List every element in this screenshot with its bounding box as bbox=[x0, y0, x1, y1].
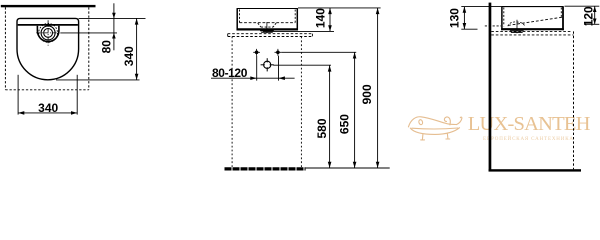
dashed outline shelf right edge bbox=[88, 7, 90, 90]
fixing hole right bbox=[275, 49, 282, 56]
basin side top edge bbox=[501, 6, 563, 8]
drain centerline front bbox=[266, 22, 268, 33]
dimension 140 line bbox=[328, 8, 332, 32]
floor line (side view) bbox=[489, 169, 581, 171]
bathtub icon outline bbox=[408, 117, 462, 140]
counter dashed band front bbox=[228, 34, 313, 37]
svg-text:ЕВРОПЕЙСКАЯ САНТЕХНИКА: ЕВРОПЕЙСКАЯ САНТЕХНИКА bbox=[483, 136, 574, 142]
svg-text:130: 130 bbox=[448, 8, 462, 28]
faucet centerline vertical bbox=[47, 20, 49, 45]
inner wall dashed right bbox=[294, 10, 296, 23]
basin outline (top view) bbox=[17, 18, 79, 79]
svg-text:580: 580 bbox=[315, 118, 329, 138]
witness line 80-120 left bbox=[256, 56, 258, 81]
basin front top edge bbox=[237, 8, 298, 10]
interior slope dashed (side) bbox=[508, 17, 562, 25]
pedestal dashed right edge (side) bbox=[573, 31, 575, 169]
drain fitting front bbox=[260, 31, 274, 33]
extension line 130 bottom bbox=[461, 28, 477, 30]
dimension 900 label bbox=[360, 84, 374, 104]
dimension 80-120 line bbox=[211, 76, 295, 80]
dimension 900 line bbox=[376, 8, 380, 168]
drain fitting (side) bbox=[510, 30, 524, 33]
interior dashed stub through wall bbox=[485, 25, 501, 27]
counter dashed top (side) bbox=[491, 30, 572, 32]
basin front left edge bbox=[236, 9, 238, 31]
dashed outline shelf left edge bbox=[4, 7, 6, 90]
faucet hole dashed circle bbox=[39, 24, 58, 43]
dimension 340 bottom label bbox=[38, 101, 58, 115]
extension line basin top (side) bbox=[461, 6, 501, 8]
inner floor dashed bbox=[240, 22, 296, 24]
dimension 580 label bbox=[315, 118, 329, 138]
floor extension line bbox=[306, 167, 390, 169]
extension line basin top edge bbox=[79, 17, 146, 19]
extension line 120 bottom bbox=[584, 23, 599, 25]
drain recess dashed bbox=[258, 23, 277, 27]
dimension 120 line bbox=[593, 6, 597, 24]
faucet hole inner circle bbox=[44, 29, 53, 38]
dimension 80 label bbox=[100, 40, 114, 54]
dimension 130 label bbox=[448, 8, 462, 28]
dimension 130 line bbox=[463, 7, 467, 30]
pedestal dashed right edge bbox=[300, 37, 302, 168]
dimension 140 label bbox=[314, 8, 328, 28]
dashed outline shelf front edge bbox=[5, 89, 88, 91]
extension line basin bottom edge bbox=[56, 79, 140, 81]
floor thick dashed bbox=[225, 167, 306, 170]
inner wall dashed right (side) bbox=[560, 8, 562, 18]
drain crosshair front bbox=[261, 58, 274, 71]
svg-text:900: 900 bbox=[360, 84, 374, 104]
svg-text:650: 650 bbox=[337, 114, 351, 134]
dimension 650 label bbox=[337, 114, 351, 134]
wall line (top view) bbox=[1, 5, 96, 7]
watermark logo group bbox=[408, 113, 590, 142]
faucet pocket bbox=[37, 26, 59, 42]
fixing hole left bbox=[253, 49, 260, 56]
drain dome dashed (side) bbox=[508, 22, 525, 26]
extension line fixing holes bbox=[281, 51, 356, 53]
basin side bottom edge bbox=[501, 28, 564, 30]
extension line faucet center bbox=[60, 32, 117, 34]
extension line basin top right (side) bbox=[565, 5, 600, 7]
drain centerline (side) bbox=[516, 20, 518, 34]
dimension 340 bottom line bbox=[18, 111, 77, 115]
dimension 340 vertical label bbox=[122, 46, 136, 66]
witness line bottom-left bbox=[17, 75, 19, 115]
dimension 80 line bbox=[112, 3, 116, 50]
counter dashed bottom (side) bbox=[491, 34, 573, 36]
faucet centerline horizontal bbox=[36, 32, 60, 34]
svg-text:340: 340 bbox=[122, 46, 136, 66]
basin front right edge bbox=[296, 9, 298, 31]
svg-text:LUX-SANTEH: LUX-SANTEH bbox=[468, 113, 591, 135]
svg-text:340: 340 bbox=[38, 101, 58, 115]
basin rear ledge line bbox=[18, 24, 78, 26]
inner wall dashed left (side) bbox=[503, 8, 505, 27]
inner wall dashed left bbox=[239, 10, 241, 23]
pedestal dashed left edge bbox=[231, 37, 233, 168]
extension line 140 bottom bbox=[263, 30, 334, 32]
dimension 340 vertical line bbox=[135, 18, 139, 80]
dimension 120 label bbox=[581, 6, 595, 26]
dimension 580 line bbox=[328, 65, 332, 167]
svg-text:140: 140 bbox=[314, 8, 328, 28]
wall line (side view) bbox=[489, 3, 492, 172]
witness line bottom-right bbox=[76, 75, 78, 115]
dimension 80-120 label bbox=[212, 66, 248, 80]
svg-text:80: 80 bbox=[100, 40, 114, 54]
faucet hole outer circle bbox=[41, 26, 55, 40]
dimension 650 line bbox=[353, 52, 357, 168]
extension line drain height bbox=[273, 64, 331, 66]
svg-text:80-120: 80-120 bbox=[212, 66, 248, 80]
basin side left edge bbox=[501, 7, 503, 31]
extension line basin top (front) bbox=[298, 7, 381, 9]
basin front bottom edge bbox=[237, 28, 299, 30]
basin side right edge bbox=[562, 7, 564, 31]
witness line 80-120 right bbox=[278, 56, 280, 81]
svg-text:120: 120 bbox=[581, 6, 595, 26]
